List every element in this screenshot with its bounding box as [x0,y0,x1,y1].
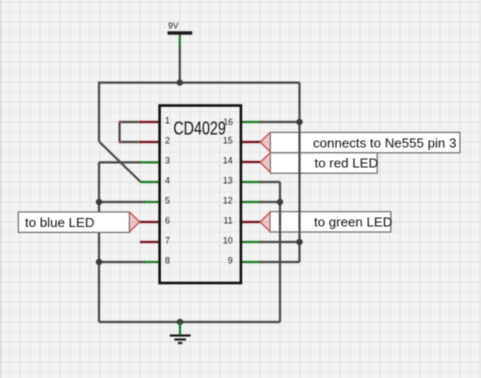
IC U1 CD4029 body [160,106,241,284]
svg-text:16: 16 [223,117,233,127]
labeled node flag at pin 15 [260,132,270,152]
canvas left edge [0,0,2,378]
svg-text:12: 12 [223,196,233,206]
wires dark [98,46,300,322]
wire pin 8 horizontal [99,261,146,263]
lead pin 1 (red) [140,121,160,123]
wire bottom ground [99,321,280,323]
wire 9V lead lower [179,46,181,83]
svg-text:13: 13 [223,176,233,186]
svg-text:9V: 9V [168,21,179,31]
node ground junction [177,319,183,325]
lead pin 11 wire (maroon) [240,221,260,223]
lead pin 13 [240,181,260,183]
svg-text:4: 4 [165,176,170,186]
lead pin 8 [144,261,160,263]
wire pin 5 horizontal [99,201,146,203]
svg-text:15: 15 [223,136,233,146]
power supply V1 9V terminal bar [168,31,193,34]
node pin8 junction [96,259,102,265]
node pin10 junction [296,239,302,245]
labeled node flag at pin 14 [260,153,270,173]
svg-text:2: 2 [165,136,170,146]
node pin12 junction [277,199,283,205]
label box: to blue LED [18,212,129,232]
wire loop vertical [118,122,120,142]
lead pin 7 (maroon) [140,241,160,243]
wire pin 16 [259,121,300,123]
power supply V1 9V lead [179,35,181,47]
ground bar 2 [174,338,186,340]
wire pin 12 [259,201,280,203]
lead pin 6 wire (maroon) [140,221,160,223]
lead pin 2 (maroon) [140,141,160,143]
label box: to red LED [270,153,378,173]
svg-text:10: 10 [223,236,233,246]
wire right rail R2 (over boxes) [279,182,281,322]
svg-text:to green LED: to green LED [314,215,392,230]
svg-text:CD4029: CD4029 [173,117,226,138]
svg-text:3: 3 [165,156,170,166]
lead pin 10 [240,241,260,243]
node pin5 junction [96,199,102,205]
wire pin 3 horizontal [99,161,141,163]
node pin16 junction [296,119,302,125]
node loop corner posts [118,121,141,144]
label box: to green LED [270,212,392,232]
lead pin 12 [240,201,260,203]
lead pin 3 [140,161,160,163]
svg-text:8: 8 [165,256,170,266]
ground bar 1 [170,334,191,336]
lead pin 14 wire (maroon) [240,161,260,163]
wire top VDD [98,81,300,83]
labeled node flag at pin 11 [260,212,270,232]
wire left rail A upper [98,83,100,142]
svg-text:7: 7 [165,236,170,246]
wire pin 10 [259,241,300,243]
svg-text:14: 14 [223,156,233,166]
wire pin 13 elbow horizontal [259,181,280,183]
svg-text:6: 6 [165,216,170,226]
green pin leads [140,122,260,262]
svg-text:11: 11 [224,216,233,226]
label box: connects to Ne555 pin 3 [270,132,460,152]
ground lead [179,322,181,335]
svg-text:to red LED: to red LED [315,156,379,171]
labeled node flag at pin 6 [130,212,140,232]
svg-text:1: 1 [165,116,170,126]
wire right rail R1 (over boxes) [298,83,300,262]
red / maroon pin leads [140,122,261,242]
wire loop pin2 horizontal [120,141,141,143]
ground bar 3 [178,342,182,344]
svg-text:to blue LED: to blue LED [25,215,94,230]
svg-text:connects to Ne555 pin 3: connects to Ne555 pin 3 [313,135,456,150]
node VDD junction [177,79,183,85]
wire diagonal to pin 4 [99,142,141,183]
lead pin 9 [240,261,260,263]
wire left rail B vertical [98,162,100,322]
svg-text:5: 5 [165,196,170,206]
wire loop pin1 horizontal [120,121,141,123]
wire pin 9 [259,261,300,263]
lead pin 15 wire (maroon) [240,141,260,143]
lead pin 4 [140,181,160,183]
svg-text:9: 9 [228,256,233,266]
lead pin 5 [144,201,160,203]
lead pin 16 [240,121,260,123]
